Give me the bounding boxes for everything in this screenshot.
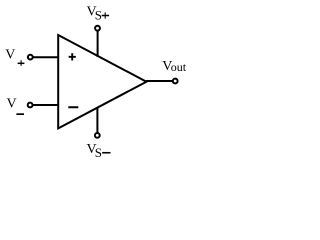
svg-text:out: out bbox=[171, 60, 187, 74]
wire: V+ input to op-amp bbox=[33, 56, 58, 58]
op-amp inverting input marker (&#8722;) bbox=[68, 106, 78, 108]
label V+ bbox=[5, 48, 24, 66]
node VS- terminal bbox=[95, 133, 100, 138]
node V- terminal bbox=[28, 103, 33, 108]
svg-text:S: S bbox=[95, 145, 102, 160]
wire: VS+ supply to op-amp top bbox=[97, 31, 99, 57]
node Vout terminal bbox=[173, 79, 178, 84]
svg-text:V: V bbox=[5, 48, 15, 63]
wire: op-amp output to Vout bbox=[146, 80, 173, 82]
node VS+ terminal bbox=[95, 26, 100, 31]
node V+ terminal bbox=[28, 55, 33, 60]
label V- bbox=[7, 97, 25, 115]
label VS- bbox=[87, 142, 111, 160]
label Vout bbox=[162, 59, 187, 74]
svg-text:V: V bbox=[7, 97, 17, 112]
wire: VS- supply to op-amp bottom bbox=[96, 107, 98, 133]
op-amp non-inverting input marker (+) bbox=[69, 53, 76, 60]
svg-text:S: S bbox=[95, 8, 102, 23]
label VS+ bbox=[87, 5, 110, 23]
op-amp U1 bbox=[58, 35, 146, 128]
wire: V- input to op-amp bbox=[33, 104, 58, 106]
